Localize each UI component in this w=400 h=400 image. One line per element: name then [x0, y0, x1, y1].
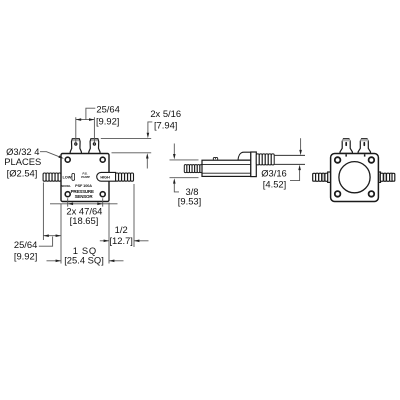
right view: left hose barb — [313, 172, 331, 182]
svg-text:[7.94]: [7.94] — [154, 120, 177, 131]
side view: main body box — [202, 160, 251, 176]
dimension line with inward arrows — [50, 203, 118, 205]
right view: terminal right — [358, 139, 370, 154]
front view: terminal left — [70, 139, 81, 154]
side view: inner lines — [202, 164, 251, 173]
svg-text:PRESSURE: PRESSURE — [71, 189, 94, 194]
right view: terminal left — [340, 139, 352, 154]
extension line right barb tip — [133, 184, 135, 247]
dimension line with outward arrows — [43, 235, 61, 237]
front view: 4 mounting holes — [65, 157, 105, 197]
front view: HIGH port barbs — [116, 173, 134, 181]
extension line terminal top level — [101, 137, 151, 139]
right view: pin ticks under terminals — [345, 154, 347, 156]
svg-text:PLACES: PLACES — [4, 156, 41, 167]
svg-text:1/2: 1/2 — [115, 224, 128, 235]
front view: left hose barb (LOW port) — [43, 173, 61, 181]
svg-text:[4.52]: [4.52] — [263, 178, 286, 189]
side view: top nub — [213, 157, 217, 160]
extension lines below bottom holes — [68, 198, 103, 206]
svg-text:LOW: LOW — [63, 174, 72, 179]
svg-text:PUMP: PUMP — [81, 175, 90, 179]
extension lines — [170, 160, 199, 178]
svg-text:HIGH: HIGH — [100, 175, 110, 180]
arrowheads — [76, 118, 81, 121]
side view: tube lines right — [274, 155, 305, 164]
svg-text:25/64: 25/64 — [96, 103, 119, 114]
dimension arrows — [100, 240, 149, 242]
svg-text:[18.65]: [18.65] — [70, 215, 99, 226]
up arrow with leader to text — [174, 183, 179, 192]
dimension arrows — [47, 260, 124, 262]
extension line body top level — [112, 152, 152, 154]
down arrow — [173, 144, 175, 156]
leader with arrowhead to top-left hole — [40, 152, 60, 157]
svg-text:[25.4 SQ]: [25.4 SQ] — [64, 255, 104, 266]
svg-text:2x 5/16: 2x 5/16 — [150, 108, 181, 119]
side view: end flange — [251, 152, 256, 177]
up arrow with bracket — [290, 170, 300, 181]
right view: body square — [331, 154, 379, 202]
svg-text:Ø3/16: Ø3/16 — [261, 168, 287, 179]
svg-text:[12.7]: [12.7] — [109, 235, 132, 246]
dimension line — [76, 119, 95, 121]
right view: 4 mounting holes — [335, 157, 374, 197]
svg-text:MODEL: MODEL — [61, 184, 71, 188]
down arrow — [300, 138, 302, 151]
bracket and down arrow — [148, 122, 152, 134]
svg-text:[9.53]: [9.53] — [178, 196, 201, 207]
svg-text:25/64: 25/64 — [14, 239, 37, 250]
side view: neck to high tube — [238, 152, 251, 160]
leader to text — [86, 108, 95, 119]
right view: right hose barb — [379, 172, 395, 182]
front view: body square — [61, 154, 109, 202]
extension lines body sides — [61, 203, 109, 264]
right view: center circle — [339, 162, 370, 193]
svg-text:[9.92]: [9.92] — [96, 115, 119, 126]
svg-text:[Ø2.54]: [Ø2.54] — [7, 168, 38, 179]
small capsule indicator — [72, 173, 75, 180]
extension lines above terminals — [76, 117, 95, 142]
up arrow below — [146, 158, 148, 169]
front view: HIGH port stadium tube — [97, 172, 116, 181]
svg-text:SENSOR: SENSOR — [75, 194, 94, 199]
side view: left barbs — [184, 165, 202, 173]
svg-text:PSF 100A: PSF 100A — [75, 184, 92, 188]
front view: terminal right — [89, 139, 100, 154]
leader — [39, 237, 53, 247]
extension line barb tip — [42, 183, 44, 241]
side view: right barbs (high port) — [256, 154, 274, 165]
svg-text:[9.92]: [9.92] — [14, 251, 37, 262]
